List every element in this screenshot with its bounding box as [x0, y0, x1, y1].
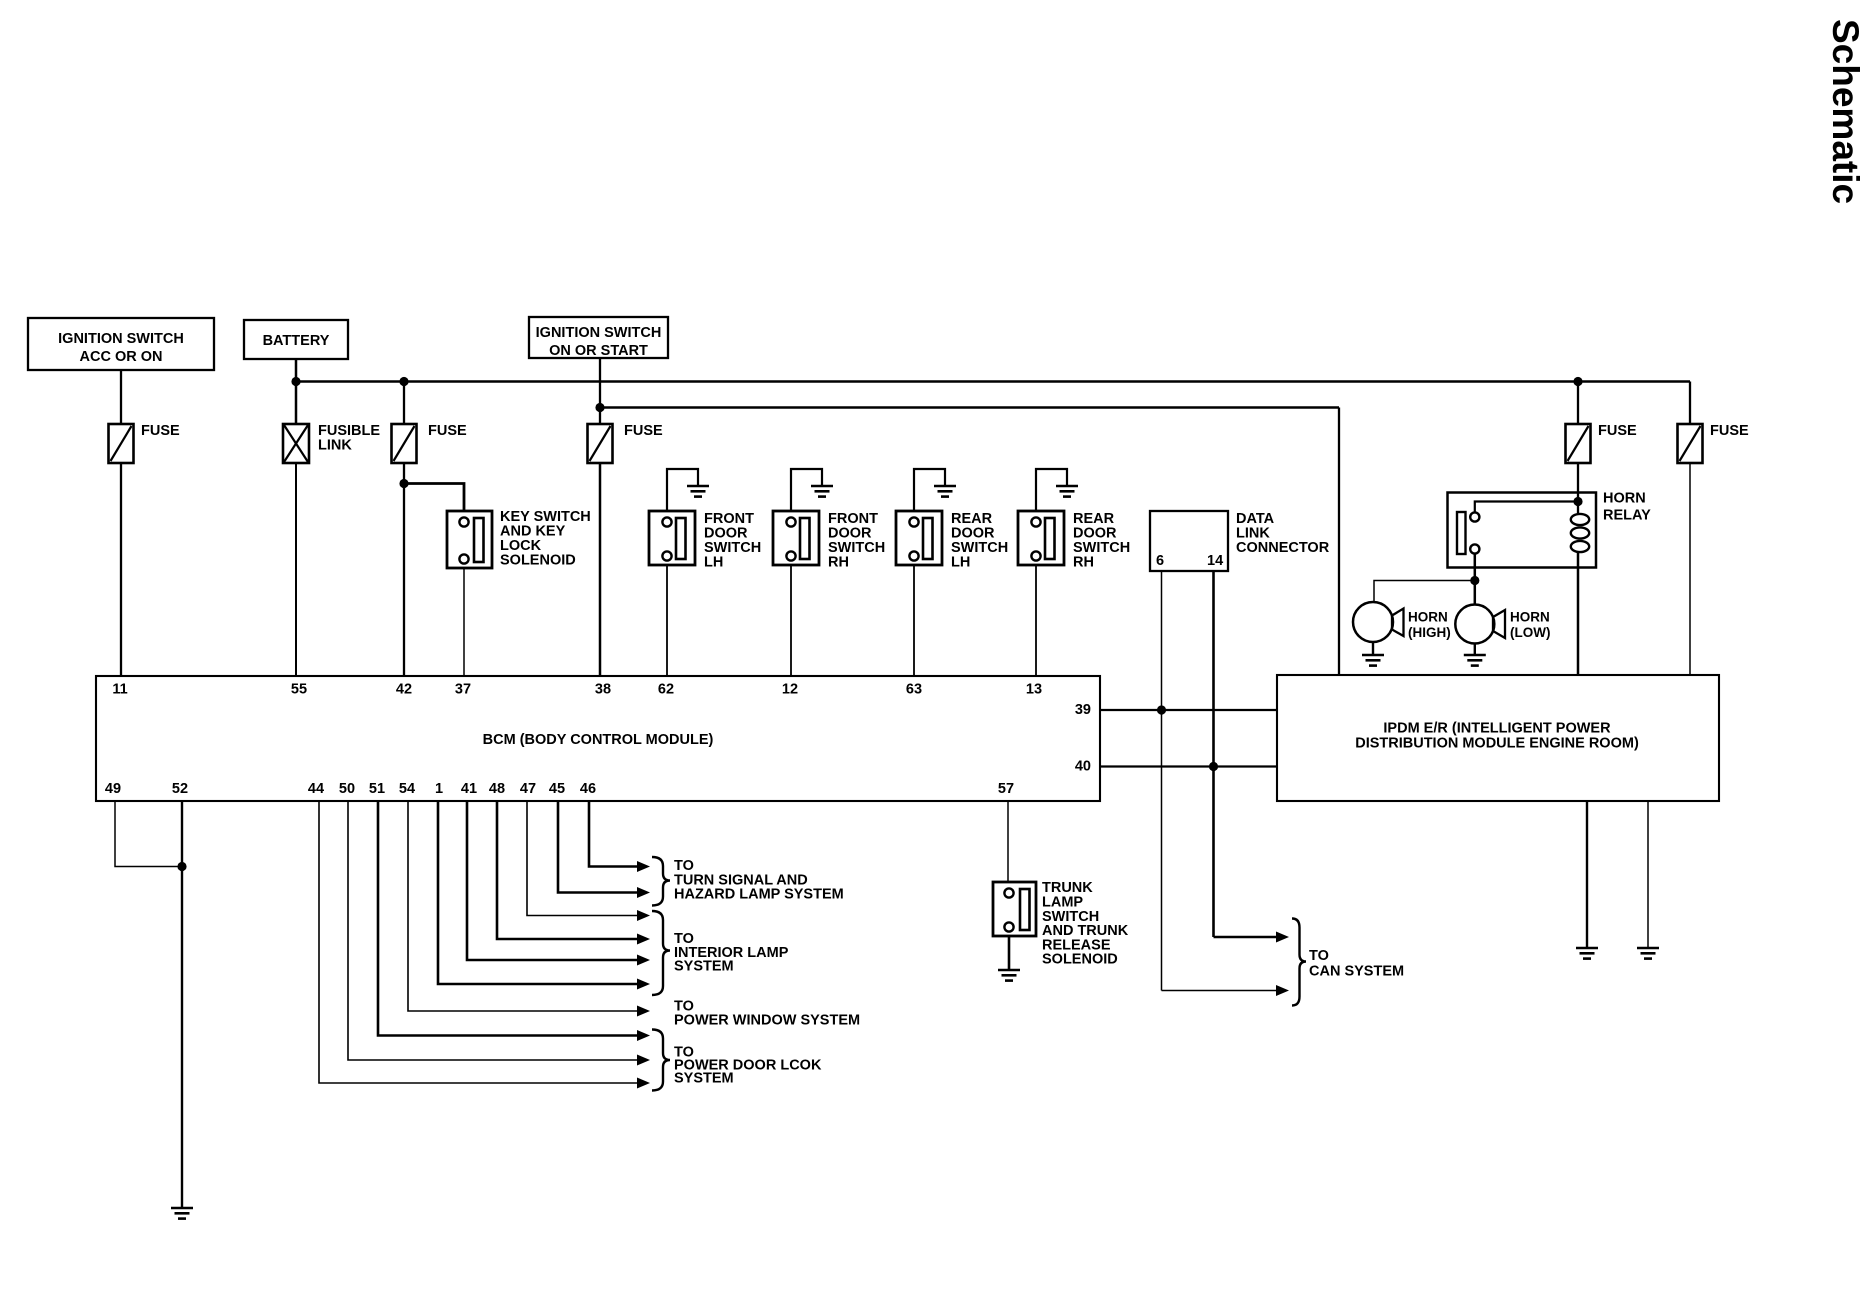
wire: BCM pin 39 to IPDM (CAN) — [1100, 709, 1277, 711]
wire: BCM pin 47 to interior lamp — [527, 801, 637, 916]
wire: BCM pin 1 to interior lamp — [438, 801, 637, 984]
wire: to horn high — [1374, 581, 1475, 603]
label: horn low — [1510, 610, 1550, 641]
horn (high) — [1353, 602, 1404, 642]
wire: rear door switch RH to BCM pin 13 — [1035, 565, 1037, 676]
svg-text:49: 49 — [105, 781, 121, 797]
wire: bus to fuse F2 — [403, 382, 405, 425]
wire: relay coil to IPDM — [1577, 552, 1580, 676]
wire: ignition bus (horizontal) — [600, 406, 1339, 409]
label: front door switch LH — [704, 511, 761, 571]
arrow: BCM pin 1 to interior lamp — [637, 979, 650, 990]
box: BCM (body control module) — [96, 676, 1100, 801]
box: data link connector — [1150, 511, 1228, 571]
svg-text:FUSE: FUSE — [428, 423, 467, 439]
ground: front door switch RH — [811, 486, 833, 497]
svg-text:48: 48 — [489, 781, 505, 797]
switch: rear door switch LH — [896, 511, 942, 565]
ground: trunk switch — [998, 970, 1020, 981]
wire: rear door switch LH to ground — [914, 469, 945, 511]
ground: horn high — [1362, 655, 1384, 666]
svg-text:CONNECTOR: CONNECTOR — [1236, 540, 1330, 556]
label: to turn signal and hazard lamp system — [674, 858, 844, 903]
svg-text:FUSE: FUSE — [624, 423, 663, 439]
svg-text:45: 45 — [549, 781, 565, 797]
wire: front door switch LH to BCM pin 62 — [666, 565, 668, 676]
junction: pin 49/52 ground tie — [177, 862, 186, 871]
wire: to horn low — [1474, 581, 1477, 606]
svg-text:44: 44 — [308, 781, 324, 797]
label: key switch and key lock solenoid — [500, 509, 591, 569]
wire: BCM pin 54 to power window — [408, 801, 637, 1011]
wire: BCM pin 41 to interior lamp — [467, 801, 637, 960]
svg-text:63: 63 — [906, 682, 922, 698]
ground: front door switch LH — [687, 486, 709, 497]
wire: key switch to BCM pin 37 — [463, 568, 465, 676]
wire: DLC pin 6 CAN-L — [1161, 571, 1163, 991]
arrow: BCM pin 54 to power window — [637, 1006, 650, 1017]
label: to interior lamp system — [674, 931, 789, 975]
svg-text:FUSE: FUSE — [141, 423, 180, 439]
junction: bus to fuse F2 tap — [399, 377, 408, 386]
box: IGNITION SWITCH ON OR START — [529, 317, 668, 358]
fuse F1 (ACC) — [109, 424, 134, 463]
svg-text:46: 46 — [580, 781, 596, 797]
svg-text:47: 47 — [520, 781, 536, 797]
svg-text:57: 57 — [998, 781, 1014, 797]
svg-text:42: 42 — [396, 682, 412, 698]
svg-text:14: 14 — [1207, 553, 1223, 569]
junction: bus to horn fuse tap — [1573, 377, 1582, 386]
wire: relay contact to coil node — [1475, 502, 1578, 513]
svg-text:13: 13 — [1026, 682, 1042, 698]
wire: BCM pin 50 to power door lock — [348, 801, 637, 1060]
wire: trunk switch to ground — [1008, 936, 1011, 969]
wire: BCM pin 57 to trunk switch — [1007, 801, 1009, 882]
fuse F2 (battery) — [392, 424, 417, 463]
junction: relay coil top — [1573, 497, 1582, 506]
svg-text:6: 6 — [1156, 553, 1164, 569]
wire: ignition bus drop to IPDM — [1338, 408, 1340, 677]
box: IGNITION SWITCH ACC OR ON — [28, 318, 214, 370]
arrow: BCM pin 47 to interior lamp — [637, 910, 650, 921]
wire: fuse F5 to IPDM — [1689, 463, 1691, 676]
wire: rear door switch RH to ground — [1036, 469, 1067, 511]
svg-text:IGNITION SWITCH: IGNITION SWITCH — [536, 325, 662, 341]
wire: fusible link to BCM pin 55 — [295, 463, 297, 676]
wire: bus drop to fuse F4 — [1577, 382, 1579, 425]
svg-text:SYSTEM: SYSTEM — [674, 1071, 734, 1087]
brace: to CAN system — [1292, 919, 1306, 1006]
label: data link connector — [1236, 511, 1330, 556]
svg-text:(LOW): (LOW) — [1510, 625, 1550, 640]
svg-text:HORN: HORN — [1408, 610, 1448, 625]
wire: BCM pin 48 to interior lamp — [497, 801, 637, 939]
ground: rear door switch LH — [934, 486, 956, 497]
junction: battery at bus — [291, 377, 300, 386]
label: trunk lamp switch and trunk release solenoid — [1042, 880, 1129, 968]
svg-text:TO: TO — [1309, 948, 1329, 964]
svg-text:RH: RH — [1073, 555, 1094, 571]
svg-text:CAN SYSTEM: CAN SYSTEM — [1309, 964, 1404, 980]
svg-text:11: 11 — [112, 682, 127, 698]
ground: BCM pins 49/52 — [171, 1208, 193, 1219]
switch: front door switch RH — [773, 511, 819, 565]
box: BATTERY — [244, 320, 348, 359]
wire: front door switch RH to BCM pin 12 — [790, 565, 792, 676]
arrow: BCM pin 45 to turn signal — [637, 887, 650, 898]
wire: front door switch RH to ground — [791, 469, 822, 511]
label: horn relay — [1603, 491, 1651, 524]
wire: DLC pin 14 CAN-H — [1212, 571, 1215, 937]
wire: fuse F1 to BCM pin 11 — [120, 463, 122, 676]
wire: fuse F4 to relay coil — [1577, 463, 1579, 513]
junction: CAN at pin 40 line — [1209, 762, 1218, 771]
svg-text:BATTERY: BATTERY — [263, 333, 330, 349]
svg-text:40: 40 — [1075, 759, 1091, 775]
fuse F4 (horn relay) — [1566, 424, 1591, 463]
wire: battery bus (horizontal) — [296, 380, 1690, 383]
wire: BCM pin 44 to power door lock — [319, 801, 637, 1083]
svg-text:FUSE: FUSE — [1598, 423, 1637, 439]
junction: horn feed split — [1470, 576, 1479, 585]
arrow: BCM pin 48 to interior lamp — [637, 934, 650, 945]
arrow: BCM pin 41 to interior lamp — [637, 955, 650, 966]
label: ignition switch on or start — [536, 325, 662, 359]
svg-text:ACC OR ON: ACC OR ON — [80, 349, 163, 365]
svg-text:52: 52 — [172, 781, 188, 797]
switch: trunk lamp switch and trunk release solenoid — [993, 882, 1036, 936]
svg-text:RELAY: RELAY — [1603, 508, 1651, 524]
svg-text:RH: RH — [828, 555, 849, 571]
fuse F5 (IPDM) — [1678, 424, 1703, 463]
svg-text:SOLENOID: SOLENOID — [1042, 952, 1118, 968]
arrow: CAN-L to CAN system — [1276, 985, 1289, 996]
wire: ACC switch to fuse F1 — [120, 370, 122, 424]
wire: BCM pin 40 to IPDM (CAN) — [1100, 765, 1277, 767]
pin labels: BCM top row — [112, 682, 1042, 698]
wire: BCM pin 45 to turn signal — [558, 801, 637, 893]
svg-text:HORN: HORN — [1510, 610, 1550, 625]
wire: rear door switch LH to BCM pin 63 — [913, 565, 915, 676]
label: to CAN system — [1309, 948, 1404, 980]
brace: to turn signal and hazard lamp system — [652, 857, 670, 906]
svg-text:HORN: HORN — [1603, 491, 1646, 507]
label: to power door lock system — [674, 1045, 822, 1087]
label: rear door switch RH — [1073, 511, 1130, 571]
brace: to interior lamp system — [652, 911, 670, 995]
fuse F3 (ignition) — [588, 424, 613, 463]
svg-text:POWER WINDOW SYSTEM: POWER WINDOW SYSTEM — [674, 1013, 860, 1029]
wire: horn high to ground — [1372, 642, 1374, 654]
pin labels: BCM bottom row — [105, 781, 1014, 797]
horn (low) — [1455, 605, 1505, 644]
label: horn high — [1408, 610, 1451, 641]
wire: fuse F2 to BCM pin 42 — [403, 463, 405, 676]
svg-text:39: 39 — [1075, 702, 1091, 718]
junction: CAN at pin 39 line — [1157, 705, 1166, 714]
svg-text:(HIGH): (HIGH) — [1408, 625, 1451, 640]
junction: ignition switch at bus — [595, 403, 604, 412]
switch: key switch and key lock solenoid — [447, 511, 492, 568]
svg-text:LH: LH — [951, 555, 970, 571]
svg-text:1: 1 — [435, 781, 443, 797]
svg-text:50: 50 — [339, 781, 355, 797]
svg-text:LINK: LINK — [318, 438, 352, 454]
wire: fuse F3 to BCM pin 38 — [599, 463, 602, 676]
wire: front door switch LH to ground — [667, 469, 698, 511]
svg-text:SYSTEM: SYSTEM — [674, 959, 734, 975]
relay coil — [1571, 514, 1589, 552]
arrow: BCM pin 50 to power door lock — [637, 1055, 650, 1066]
ground: rear door switch RH — [1056, 486, 1078, 497]
wire: horn low to ground — [1474, 644, 1476, 655]
svg-text:SOLENOID: SOLENOID — [500, 553, 576, 569]
wire: BCM pin 46 to turn signal — [589, 801, 637, 867]
svg-text:51: 51 — [369, 781, 385, 797]
label: ignition switch acc or on — [58, 331, 184, 365]
svg-text:62: 62 — [658, 682, 674, 698]
wire: battery down to fusible link — [295, 359, 298, 424]
junction: key switch branch tap — [399, 479, 408, 488]
fusible link — [283, 424, 309, 463]
svg-text:HAZARD LAMP SYSTEM: HAZARD LAMP SYSTEM — [674, 887, 844, 903]
label: to power window system — [674, 999, 860, 1029]
box: IPDM E/R — [1277, 675, 1719, 801]
box: horn relay — [1448, 493, 1597, 568]
wire: CAN-L to CAN system — [1162, 990, 1277, 992]
svg-text:12: 12 — [782, 682, 798, 698]
label: fusible link — [318, 423, 380, 454]
switch: front door switch LH — [649, 511, 695, 565]
arrow: BCM pin 51 to power door lock — [637, 1030, 650, 1041]
svg-text:BCM (BODY CONTROL MODULE): BCM (BODY CONTROL MODULE) — [483, 732, 714, 748]
svg-text:FUSE: FUSE — [1710, 423, 1749, 439]
svg-text:38: 38 — [595, 682, 611, 698]
ground: IPDM 2 — [1637, 948, 1659, 959]
switch: rear door switch RH — [1018, 511, 1064, 565]
ground: IPDM 1 — [1576, 948, 1598, 959]
wire: IPDM ground 2 — [1647, 801, 1649, 947]
ground: horn low — [1464, 655, 1486, 666]
relay contact — [1457, 512, 1479, 554]
wire: BCM pin 51 to power door lock — [378, 801, 637, 1036]
label: rear door switch LH — [951, 511, 1008, 571]
svg-text:DISTRIBUTION MODULE ENGINE ROO: DISTRIBUTION MODULE ENGINE ROOM) — [1355, 736, 1639, 752]
label: front door switch RH — [828, 511, 885, 571]
arrow: BCM pin 46 to turn signal — [637, 861, 650, 872]
svg-text:IGNITION SWITCH: IGNITION SWITCH — [58, 331, 184, 347]
svg-text:Schematic: Schematic — [1825, 19, 1864, 204]
svg-text:LH: LH — [704, 555, 723, 571]
wire: ignition on/start to fuse F3 — [599, 358, 601, 424]
svg-text:37: 37 — [455, 682, 471, 698]
wire: bus drop to fuse F5 — [1689, 382, 1691, 425]
svg-text:55: 55 — [291, 682, 307, 698]
brace: to power door lock system — [652, 1030, 670, 1091]
wire: BCM pin 52 to ground — [181, 801, 183, 1207]
svg-text:41: 41 — [461, 781, 477, 797]
arrow: BCM pin 44 to power door lock — [637, 1078, 650, 1089]
svg-text:IPDM E/R (INTELLIGENT POWER: IPDM E/R (INTELLIGENT POWER — [1383, 721, 1611, 737]
svg-text:54: 54 — [399, 781, 415, 797]
svg-text:ON OR START: ON OR START — [549, 343, 648, 359]
wire: branch to key switch — [404, 484, 464, 511]
wire: CAN-H to CAN system — [1214, 936, 1277, 939]
wire: IPDM ground 1 — [1586, 801, 1588, 947]
arrow: CAN-H to CAN system — [1276, 932, 1289, 943]
wire: relay contact to horn node — [1474, 554, 1477, 581]
label: IPDM E/R — [1355, 721, 1639, 752]
wire: BCM pin 49 to ground node — [115, 801, 182, 867]
